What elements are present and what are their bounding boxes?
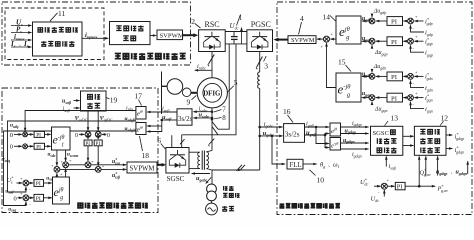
- svg-text:、: 、: [451, 170, 456, 175]
- svg-text:PI: PI: [36, 144, 41, 150]
- svg-text:SGSC: SGSC: [167, 175, 185, 183]
- svg-text:13: 13: [391, 113, 399, 122]
- svg-text:5: 5: [234, 78, 238, 87]
- svg-text:Δugqn: Δugqn: [374, 107, 388, 113]
- svg-text:8: 8: [222, 114, 226, 122]
- svg-text:SVPWM: SVPWM: [160, 33, 184, 40]
- svg-text:ugdn: ugdn: [362, 71, 372, 77]
- svg-text:usdc: usdc: [48, 152, 56, 158]
- svg-text:ussq: ussq: [8, 207, 16, 213]
- svg-text:Δugdn: Δugdn: [373, 64, 387, 70]
- svg-text:0: 0: [75, 133, 78, 139]
- svg-text:PGSC: PGSC: [251, 20, 271, 29]
- svg-text:ugdqp: ugdqp: [436, 170, 447, 176]
- svg-text:FLL: FLL: [290, 162, 302, 169]
- svg-text:RSC: RSC: [205, 20, 220, 29]
- svg-text:ugdqn: ugdqn: [456, 170, 468, 176]
- svg-text:10: 10: [317, 176, 325, 185]
- svg-text:PI: PI: [391, 19, 397, 26]
- svg-text:igdqp: igdqp: [352, 121, 362, 127]
- svg-text:PI: PI: [391, 39, 397, 46]
- svg-text:uscom: uscom: [67, 152, 78, 158]
- svg-text:Δugdp: Δugdp: [373, 9, 387, 15]
- svg-text:SVPWM: SVPWM: [291, 37, 315, 44]
- svg-text:U*s: U*s: [7, 176, 14, 185]
- svg-text:17: 17: [135, 92, 143, 101]
- svg-text:Δugqp: Δugqp: [374, 50, 388, 56]
- svg-text:ugdp: ugdp: [362, 16, 371, 22]
- svg-text:PI: PI: [36, 181, 41, 187]
- svg-text:0: 0: [10, 132, 13, 139]
- svg-text:PI: PI: [36, 133, 41, 139]
- svg-text:18: 18: [142, 151, 150, 160]
- svg-text:DFIG: DFIG: [203, 90, 221, 97]
- svg-text:14: 14: [323, 13, 331, 22]
- svg-text:11: 11: [58, 9, 65, 18]
- svg-text:0: 0: [10, 144, 13, 151]
- svg-text:isdq: isdq: [126, 105, 133, 111]
- svg-text:igdqn: igdqn: [352, 152, 362, 158]
- svg-text:PI: PI: [391, 74, 397, 81]
- svg-text:12: 12: [441, 113, 449, 122]
- svg-text:SVPWM: SVPWM: [130, 165, 155, 172]
- svg-text:3s/2s: 3s/2s: [178, 115, 193, 123]
- svg-text:SGSC: SGSC: [373, 130, 390, 137]
- svg-text:ugqn: ugqn: [362, 91, 372, 97]
- svg-text:PI: PI: [391, 95, 397, 102]
- svg-text:usdq: usdq: [2, 157, 11, 163]
- svg-text:PI: PI: [397, 183, 403, 190]
- svg-text:4: 4: [300, 14, 304, 23]
- svg-text:0: 0: [14, 196, 17, 203]
- svg-text:usαβ: usαβ: [62, 99, 72, 105]
- svg-text:ussd: ussd: [5, 189, 14, 195]
- svg-text:ugdqp: ugdqp: [345, 128, 356, 134]
- svg-text:isαβ: isαβ: [63, 107, 70, 113]
- svg-text:0: 0: [107, 133, 110, 139]
- svg-text:15: 15: [338, 58, 346, 67]
- svg-text:ugqp: ugqp: [362, 36, 371, 42]
- svg-text:3s/2s: 3s/2s: [285, 130, 300, 138]
- svg-text:ugdqn: ugdqn: [343, 138, 355, 144]
- svg-text:usdq: usdq: [10, 123, 19, 129]
- svg-text:+: +: [102, 164, 105, 169]
- svg-text:19: 19: [110, 96, 118, 105]
- svg-text:9: 9: [187, 98, 191, 107]
- svg-text:2: 2: [191, 17, 195, 26]
- svg-text:ejθg: ejθg: [54, 185, 64, 201]
- svg-text:PI: PI: [36, 196, 41, 202]
- svg-text:7: 7: [222, 106, 226, 114]
- svg-text:3: 3: [264, 62, 268, 71]
- svg-text:16: 16: [283, 107, 291, 116]
